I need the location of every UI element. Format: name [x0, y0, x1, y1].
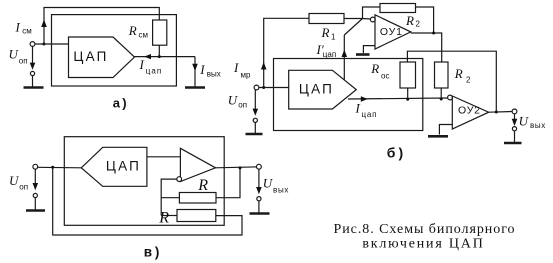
- svg-text:R: R: [128, 23, 137, 38]
- svg-text:ос: ос: [381, 72, 389, 81]
- svg-text:I: I: [15, 20, 21, 35]
- svg-text:см: см: [22, 26, 32, 35]
- svg-text:мр: мр: [241, 70, 252, 79]
- svg-text:R: R: [405, 13, 414, 28]
- svg-text:в): в): [144, 245, 162, 260]
- svg-text:вых: вых: [273, 186, 289, 195]
- svg-text:включения ЦАП: включения ЦАП: [362, 236, 484, 251]
- svg-text:ОУ2: ОУ2: [458, 105, 481, 117]
- svg-text:ОУ1: ОУ1: [380, 26, 403, 38]
- svg-text:оп: оп: [19, 183, 28, 192]
- svg-text:I: I: [233, 60, 239, 75]
- svg-text:1: 1: [331, 33, 336, 42]
- svg-text:цап: цап: [362, 110, 378, 119]
- svg-text:R: R: [454, 66, 463, 81]
- svg-text:цап: цап: [146, 67, 162, 76]
- svg-text:ЦАП: ЦАП: [73, 49, 108, 64]
- svg-text:Рис.8. Схемы биполярного: Рис.8. Схемы биполярного: [334, 222, 516, 237]
- svg-text:R: R: [158, 210, 169, 227]
- svg-text:а): а): [113, 96, 129, 111]
- svg-text:R: R: [197, 177, 208, 194]
- svg-text:I: I: [355, 100, 361, 115]
- svg-text:R: R: [370, 61, 379, 76]
- svg-text:R: R: [321, 25, 330, 40]
- svg-text:вых: вых: [530, 121, 546, 130]
- svg-text:оп: оп: [19, 56, 28, 65]
- svg-text:U: U: [228, 92, 239, 107]
- svg-text:ЦАП: ЦАП: [106, 159, 141, 174]
- svg-text:I: I: [139, 57, 145, 72]
- svg-text:U: U: [519, 113, 530, 128]
- svg-text:ЦАП: ЦАП: [299, 82, 334, 97]
- svg-text:оп: оп: [238, 101, 247, 110]
- svg-text:б): б): [387, 145, 406, 161]
- svg-text:2: 2: [466, 75, 471, 84]
- svg-text:2: 2: [416, 20, 421, 29]
- svg-text:вых: вых: [207, 70, 221, 79]
- svg-text:I: I: [199, 62, 205, 77]
- svg-text:цап: цап: [323, 50, 336, 59]
- svg-text:см: см: [139, 30, 149, 39]
